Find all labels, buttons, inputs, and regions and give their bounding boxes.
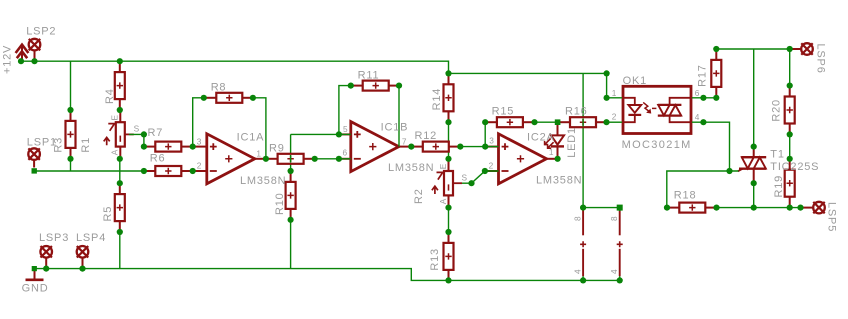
label R3 [53, 137, 65, 153]
resistor R20 [785, 86, 795, 135]
wire R15 to R16 [535, 121, 558, 123]
resistor R11 [351, 81, 399, 91]
wire R14 chain (under R12 edge) [448, 122, 450, 159]
svg-text:R20: R20 [771, 99, 783, 122]
junction [531, 119, 537, 125]
LED D1 (LED1) [545, 122, 564, 159]
wire pot R2 A to R13 [448, 208, 450, 232]
svg-text:R1: R1 [80, 137, 92, 153]
resistor R12 [411, 142, 460, 152]
label IC2A [527, 132, 555, 144]
pin 7 IC1B [402, 136, 407, 146]
wire rail to R20 [789, 49, 791, 86]
potentiometer R2 [432, 159, 462, 208]
svg-text:LSP4: LSP4 [76, 232, 106, 244]
wire inside R16 [582, 119, 584, 127]
resistor R8 [204, 93, 253, 103]
junction [445, 229, 451, 235]
junction [263, 156, 269, 162]
label R7 [148, 127, 164, 139]
svg-text:GND: GND [22, 283, 49, 295]
junction [445, 70, 451, 76]
svg-text:LSP5: LSP5 [826, 202, 838, 232]
label R19 [773, 175, 785, 198]
wire top rail right [716, 48, 791, 50]
wire gate node to R18 [667, 171, 730, 208]
resistor R4 [115, 61, 125, 110]
junction [482, 144, 488, 150]
resistor R7 [144, 142, 193, 152]
svg-text:LM358N: LM358N [536, 174, 582, 186]
label R9 [269, 143, 285, 155]
svg-text:2: 2 [489, 161, 494, 171]
wire IC1B pin5 feedback [291, 133, 351, 135]
label R10 [274, 192, 286, 215]
junction [67, 107, 73, 113]
+12V supply symbol [16, 45, 29, 62]
resistor R10 [286, 171, 296, 220]
svg-text:LED1: LED1 [566, 127, 578, 158]
pin 6 OK1 [695, 88, 700, 98]
wire GND bus [35, 269, 620, 281]
junction [700, 119, 706, 125]
junction [336, 131, 342, 137]
junction [312, 156, 318, 162]
junction [457, 144, 463, 150]
solder pad LSP5 [801, 202, 825, 214]
svg-text:+12V: +12V [1, 45, 13, 74]
junction [67, 156, 73, 162]
svg-text:TIC225S: TIC225S [770, 161, 819, 173]
svg-text:3: 3 [489, 136, 494, 146]
pin 6 IC1B [343, 148, 348, 158]
junction [482, 168, 488, 174]
junction [617, 205, 623, 211]
svg-text:4: 4 [609, 269, 619, 274]
junction [482, 119, 488, 125]
pin A pot R1 [109, 149, 119, 155]
wire R7 to R8 branch [193, 98, 204, 147]
svg-text:R7: R7 [148, 127, 164, 139]
label R4 [104, 88, 116, 104]
solder pad LSP4 [77, 246, 89, 269]
label GND [22, 283, 49, 295]
svg-text:LSP6: LSP6 [815, 44, 827, 74]
wire power pin4 right [619, 276, 621, 280]
svg-text:R12: R12 [415, 130, 438, 142]
wire R10 to GND bus [290, 220, 292, 269]
label LSP6 [815, 44, 827, 74]
wire pot R2 wiper to IC2A pin2 [462, 171, 499, 183]
wire +12V to R3 [70, 61, 72, 110]
wire R8 to output IC1A [253, 98, 266, 159]
label R15 [492, 105, 515, 117]
pin 1 OK1 [612, 88, 617, 98]
junction [445, 205, 451, 211]
resistor R14 [444, 73, 454, 122]
junction [190, 168, 196, 174]
wire R10 top to pin5 vertical (under R9) [290, 134, 292, 171]
wire power pin4 left [582, 276, 584, 280]
wire power pins top [583, 208, 620, 211]
solder pad LSP2 [29, 39, 41, 61]
svg-text:LSP3: LSP3 [39, 232, 69, 244]
label R2 (pot) [413, 188, 425, 204]
label LSP1 [27, 137, 57, 149]
svg-text:1: 1 [549, 147, 554, 157]
junction [288, 168, 294, 174]
junction [580, 277, 586, 283]
junction [603, 119, 609, 125]
resistor R19 [785, 159, 795, 208]
junction [117, 107, 123, 113]
resistor R5 [115, 183, 125, 232]
junction [117, 229, 123, 235]
junction [396, 83, 402, 89]
label R14 [431, 88, 443, 111]
pin 4 IC2P [609, 269, 619, 274]
value LM358N (IC2A) [536, 174, 582, 186]
wire input node LSP1 to R6 [35, 170, 144, 172]
svg-text:8: 8 [572, 216, 582, 221]
junction [408, 144, 414, 150]
label T1 [770, 148, 784, 160]
label R18 [674, 190, 697, 202]
label LSP5 [826, 202, 838, 232]
label LSP3 [39, 232, 69, 244]
pin 1 IC1A [256, 148, 261, 158]
junction [117, 156, 123, 162]
junction [664, 205, 670, 211]
svg-text:R5: R5 [102, 206, 114, 222]
label +12V [1, 45, 13, 74]
wire R16 to OK1 pin2 [607, 121, 623, 123]
label LSP2 [26, 26, 56, 38]
junction [445, 119, 451, 125]
junction [787, 131, 793, 137]
junction [117, 180, 123, 186]
junction [700, 95, 706, 101]
label OK1 [623, 75, 647, 87]
svg-text:R17: R17 [697, 64, 709, 87]
label R5 [102, 206, 114, 222]
IC1 power pins [580, 210, 586, 277]
svg-text:IC1A: IC1A [237, 132, 265, 144]
svg-text:6: 6 [695, 88, 700, 98]
wire IC1A out to IC1B in [315, 158, 351, 160]
svg-text:2: 2 [612, 112, 617, 122]
svg-text:4: 4 [572, 269, 582, 274]
resistor R15 [485, 117, 534, 127]
junction [79, 266, 85, 272]
triac T1 [738, 147, 766, 184]
pin E pot R2 [438, 163, 448, 169]
junction [617, 277, 623, 283]
wire T1 MT1 down [753, 183, 755, 207]
junction [141, 168, 147, 174]
wire OK1 pin4 to gate [692, 122, 739, 171]
label R1 (pot) [80, 137, 92, 153]
svg-text:8: 8 [609, 216, 619, 221]
svg-text:LM358N: LM358N [240, 175, 286, 187]
label R17 [697, 64, 709, 87]
label R12 [415, 130, 438, 142]
junction [604, 70, 610, 76]
wire rail to T1 [753, 49, 755, 147]
pin 3 IC1A [197, 136, 202, 146]
potentiometer R1 [104, 110, 134, 159]
junction [713, 95, 719, 101]
junction [713, 205, 719, 211]
resistor R16 [558, 117, 607, 127]
junction [18, 58, 24, 64]
label LSP4 [76, 232, 106, 244]
label IC1A [237, 132, 265, 144]
junction [31, 58, 37, 64]
wire R5 to GND bus [119, 232, 121, 269]
wire pot R1 bottom to R5 [119, 159, 121, 183]
junction [797, 205, 803, 211]
svg-text:4: 4 [695, 112, 700, 122]
wire R12 to IC2A pin3 [460, 146, 498, 148]
pin 2 IC2A [489, 161, 494, 171]
label R16 [565, 105, 588, 117]
junction [201, 95, 207, 101]
junction [787, 46, 793, 52]
svg-text:1: 1 [612, 88, 617, 98]
svg-text:3: 3 [197, 136, 202, 146]
value MOC3021M [622, 139, 692, 151]
pin S pot R2 [462, 173, 468, 183]
svg-text:R8: R8 [211, 81, 227, 93]
value TIC225S [770, 161, 819, 173]
svg-text:IC2A: IC2A [527, 132, 555, 144]
value LM358N (IC1A) [240, 175, 286, 187]
svg-text:R11: R11 [358, 70, 380, 82]
ground [26, 269, 44, 280]
svg-text:R18: R18 [674, 190, 697, 202]
wire inside R9 [290, 155, 292, 163]
junction [445, 156, 451, 162]
wire R11 feedback right [398, 86, 400, 147]
pin 4 IC1P [572, 269, 582, 274]
svg-text:E: E [438, 163, 448, 169]
IC2 power pins [617, 210, 623, 277]
svg-text:R9: R9 [269, 143, 285, 155]
junction [32, 168, 37, 173]
wire R3 to input node [70, 159, 72, 171]
junction [751, 180, 757, 186]
pin 5 IC1B [343, 124, 348, 134]
solder pad LSP3 [40, 246, 52, 269]
junction [348, 83, 354, 89]
pin E pot R1 [109, 114, 119, 120]
pin 4 OK1 [695, 112, 700, 122]
junction [250, 95, 256, 101]
svg-text:R2: R2 [413, 188, 425, 204]
svg-text:R13: R13 [429, 248, 441, 271]
resistor R3 [66, 110, 76, 159]
svg-text:R15: R15 [492, 105, 515, 117]
op-amp IC1B [337, 122, 410, 172]
op-amp IC2A [485, 134, 558, 184]
value LM358N (IC1B) [388, 162, 434, 174]
junction [787, 83, 793, 89]
junction [555, 119, 561, 125]
wire R11 feedback left [339, 86, 351, 135]
label R11 [358, 70, 380, 82]
svg-text:1: 1 [256, 148, 261, 158]
junction [190, 144, 196, 150]
junction [751, 205, 757, 211]
wire R20 to R19 [789, 134, 791, 158]
svg-text:S: S [134, 124, 140, 134]
svg-text:LM358N: LM358N [388, 162, 434, 174]
resistor R6 [144, 166, 193, 176]
wire R18 to LSP5 [717, 207, 801, 209]
junction [336, 156, 342, 162]
pin 8 IC1P [572, 216, 582, 221]
svg-text:5: 5 [343, 124, 348, 134]
junction [468, 180, 474, 186]
wire R15 branch [484, 122, 486, 146]
svg-text:A: A [109, 149, 119, 155]
pin 2 IC1A [197, 161, 202, 171]
label R20 [771, 99, 783, 122]
junction [141, 131, 147, 137]
pin S pot R1 [134, 124, 140, 134]
junction [713, 46, 719, 52]
label LED1 [566, 127, 578, 158]
junction [141, 144, 147, 150]
svg-text:6: 6 [343, 148, 348, 158]
solder pad LSP6 [791, 43, 813, 55]
junction [787, 156, 793, 162]
pin 8 IC2P [609, 216, 619, 221]
junction [288, 217, 294, 223]
svg-text:IC1B: IC1B [381, 121, 409, 133]
resistor R18 [667, 203, 717, 213]
svg-text:R19: R19 [773, 175, 785, 198]
label IC1B [381, 121, 409, 133]
resistor R9 [266, 154, 315, 164]
junction [604, 95, 610, 101]
svg-text:T1: T1 [770, 148, 784, 160]
svg-text:R10: R10 [274, 192, 286, 215]
junction [787, 205, 793, 211]
svg-text:MOC3021M: MOC3021M [622, 139, 692, 151]
svg-text:R6: R6 [150, 153, 166, 165]
svg-text:LSP2: LSP2 [26, 26, 56, 38]
svg-text:A: A [438, 198, 448, 204]
svg-text:R4: R4 [104, 88, 116, 104]
junction [555, 156, 561, 162]
junction [43, 266, 49, 272]
pin 1 IC2A [549, 147, 554, 157]
label R6 [150, 153, 166, 165]
junction [726, 168, 732, 174]
pin 3 IC2A [489, 136, 494, 146]
svg-text:E: E [109, 114, 119, 120]
svg-text:R3: R3 [53, 137, 65, 153]
svg-text:R14: R14 [431, 88, 443, 111]
wire +12V down to power pins (under R16) [582, 73, 584, 207]
pin A pot R2 [438, 198, 448, 204]
wire OK1 pin6 to R17 [692, 97, 716, 99]
junction [445, 277, 451, 283]
op-amp IC1A [193, 134, 266, 184]
wire +12V rail [21, 61, 622, 98]
junction [32, 266, 37, 271]
label R8 [211, 81, 227, 93]
junction [580, 205, 586, 211]
label R13 [429, 248, 441, 271]
resistor R17 [711, 49, 721, 98]
wire pot R1 wiper [129, 134, 144, 146]
svg-text:7: 7 [402, 136, 407, 146]
optocoupler OK1 [623, 86, 691, 133]
junction [751, 144, 757, 150]
svg-text:S: S [462, 173, 468, 183]
svg-text:2: 2 [197, 161, 202, 171]
svg-text:R16: R16 [565, 105, 588, 117]
solder pad LSP1 [28, 148, 40, 167]
resistor R13 [444, 232, 454, 280]
junction [117, 58, 123, 64]
pin 2 OK1 [612, 112, 617, 122]
svg-text:OK1: OK1 [623, 75, 647, 87]
